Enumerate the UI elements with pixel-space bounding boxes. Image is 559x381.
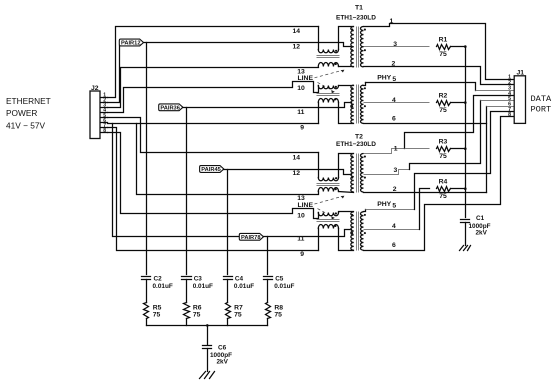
choke core xyxy=(317,219,340,221)
svg-text:PAIR78: PAIR78 xyxy=(241,235,261,241)
choke core xyxy=(317,183,340,185)
svg-text:75: 75 xyxy=(439,107,447,114)
choke winding top (line side) xyxy=(318,213,338,216)
svg-text:J2: J2 xyxy=(91,85,99,92)
svg-text:LINE: LINE xyxy=(298,202,314,209)
svg-text:9: 9 xyxy=(300,125,304,132)
pin 5 row T1 to J1 pin3 xyxy=(364,83,366,86)
secondary winding xyxy=(360,85,363,123)
wire PAIR12 drop to C2 xyxy=(146,43,148,275)
wire PAIR45 drop to C4 xyxy=(227,170,229,275)
capacitor C3 xyxy=(182,276,192,278)
net flag PAIR36 xyxy=(159,104,183,111)
svg-text:75: 75 xyxy=(439,153,447,160)
wire J2 pin1 to T1 pin14 row xyxy=(108,27,319,98)
svg-text:PHY: PHY xyxy=(377,75,391,82)
wire choke bottom right down to primary bottom tap xyxy=(339,229,354,251)
J2 pin 2 xyxy=(101,102,108,104)
svg-text:8: 8 xyxy=(508,112,511,118)
wire choke bottom right down to primary bottom tap xyxy=(339,103,354,124)
svg-text:R1: R1 xyxy=(439,36,448,43)
choke core xyxy=(317,55,340,57)
svg-text:11: 11 xyxy=(297,109,304,116)
svg-text:T2: T2 xyxy=(355,133,363,140)
wire PAIR36 row to T1 lower primary mid tap xyxy=(183,103,352,108)
wire J2 pin5 to T2 pin14 row xyxy=(108,118,319,153)
svg-text:2: 2 xyxy=(393,186,397,193)
termination bus vertical xyxy=(465,47,467,218)
J2 pin 5 xyxy=(101,117,108,119)
transformer core xyxy=(356,27,358,68)
svg-text:C4: C4 xyxy=(235,275,244,282)
svg-text:12: 12 xyxy=(293,170,301,177)
wire J2 pin3 to T1 pin13 row xyxy=(108,68,319,108)
svg-text:PAIR36: PAIR36 xyxy=(160,106,180,112)
svg-text:1: 1 xyxy=(390,18,394,25)
resistor R1 xyxy=(364,46,430,48)
svg-text:75: 75 xyxy=(439,193,447,200)
svg-text:14: 14 xyxy=(293,28,301,35)
choke winding bottom (line side) xyxy=(318,62,338,66)
svg-text:R2: R2 xyxy=(439,92,448,99)
svg-text:14: 14 xyxy=(293,155,301,162)
wire C2 to R5 xyxy=(146,280,148,303)
transformer core xyxy=(356,85,358,124)
secondary winding xyxy=(361,154,364,193)
wire R6 to bottom bus xyxy=(186,319,188,326)
svg-text:R4: R4 xyxy=(439,179,448,186)
svg-text:2kV: 2kV xyxy=(217,359,229,366)
resistor R8 xyxy=(266,303,271,319)
net flag PAIR78 xyxy=(239,233,263,240)
wire J2 pin8 to T2 pin10 row with jog xyxy=(108,133,319,219)
svg-text:DATA: DATA xyxy=(531,94,552,104)
wire branch to PAIR78 row xyxy=(113,124,240,237)
capacitor C4 xyxy=(224,276,233,278)
wire R7 to bottom bus xyxy=(227,319,229,326)
primary winding xyxy=(351,212,354,250)
wire pin14 drop to choke xyxy=(318,27,320,50)
svg-text:0.01uF: 0.01uF xyxy=(234,283,254,290)
resistor R6 xyxy=(184,303,190,319)
wire choke top right to primary top tap xyxy=(339,27,354,50)
secondary winding xyxy=(361,212,364,250)
ground below C6 xyxy=(200,372,206,379)
svg-text:8: 8 xyxy=(103,128,106,134)
svg-text:R3: R3 xyxy=(439,139,448,146)
transformer core xyxy=(356,212,358,251)
svg-text:C5: C5 xyxy=(275,275,284,282)
svg-text:41V − 57V: 41V − 57V xyxy=(6,121,45,131)
primary winding xyxy=(351,85,354,123)
choke winding top (line side) xyxy=(318,50,338,53)
bottom bus xyxy=(147,325,268,327)
wire C5 to R8 xyxy=(267,280,269,303)
pin 4 row T2 to R4 xyxy=(364,229,420,231)
pin 2 row T1 to J1 pin2 xyxy=(364,67,515,85)
svg-text:ETHERNET: ETHERNET xyxy=(6,96,51,106)
svg-text:PORT: PORT xyxy=(531,105,552,115)
wire PAIR78 drop to C5 xyxy=(267,237,269,275)
svg-text:0.01uF: 0.01uF xyxy=(274,283,294,290)
svg-text:11: 11 xyxy=(297,236,304,243)
svg-text:R6: R6 xyxy=(193,304,202,311)
svg-text:2kV: 2kV xyxy=(476,229,488,236)
ground below C1 xyxy=(460,246,464,251)
svg-text:6: 6 xyxy=(392,116,396,123)
svg-text:J1: J1 xyxy=(517,69,525,76)
wire R5 to bottom bus xyxy=(146,319,148,326)
svg-text:0.01uF: 0.01uF xyxy=(153,283,173,290)
pin 1 row T1 xyxy=(364,24,515,80)
svg-text:6: 6 xyxy=(392,242,396,249)
svg-text:75: 75 xyxy=(274,312,282,319)
wire J2 pin7 to T2 pin9 row xyxy=(108,128,319,251)
connector J2 xyxy=(90,91,100,139)
J2 pin 7 xyxy=(101,127,108,129)
svg-text:ETH1−230LD: ETH1−230LD xyxy=(336,14,376,21)
junction to C6 xyxy=(206,324,209,327)
wire J2 pin4 to T1 pin10 row with jog xyxy=(108,82,319,113)
secondary winding xyxy=(361,27,364,67)
svg-text:PAIR45: PAIR45 xyxy=(201,167,221,173)
svg-text:R5: R5 xyxy=(153,304,162,311)
pin 6 row T1 to J1 pin6 feeder xyxy=(364,123,487,125)
choke winding bottom (line side) xyxy=(318,98,338,102)
svg-text:10: 10 xyxy=(297,85,305,92)
J2 pin 6 xyxy=(101,122,108,124)
J2 pin 1 xyxy=(101,97,108,99)
J2 pin 8 xyxy=(101,132,108,134)
pin 3 row T2 to J1 pin5 xyxy=(364,170,410,175)
svg-text:0.01uF: 0.01uF xyxy=(193,283,213,290)
primary winding xyxy=(351,27,354,67)
svg-text:3: 3 xyxy=(394,167,398,174)
svg-text:2: 2 xyxy=(392,61,396,68)
J2 pin 3 xyxy=(101,107,108,109)
wire PAIR12 row to T1 primary mid tap xyxy=(144,43,352,47)
svg-text:C6: C6 xyxy=(218,345,227,352)
wire choke bottom right to primary bottom tap xyxy=(339,66,354,68)
svg-text:1: 1 xyxy=(394,146,398,153)
wire pin9 row up to choke bottom left xyxy=(318,229,320,251)
resistor R4 xyxy=(437,187,451,192)
resistor R7 xyxy=(226,303,231,319)
wire PAIR45 row to T2 primary mid tap xyxy=(224,170,352,175)
svg-text:ETH1−230LD: ETH1−230LD xyxy=(336,141,376,148)
resistor R3 xyxy=(437,147,451,152)
svg-text:5: 5 xyxy=(392,203,396,210)
svg-text:75: 75 xyxy=(234,312,242,319)
svg-text:POWER: POWER xyxy=(6,108,37,118)
choke core xyxy=(317,93,340,95)
choke winding bottom (line side) xyxy=(318,187,338,191)
pin 6 row T2 to J1 pin8 xyxy=(364,117,515,251)
svg-text:R7: R7 xyxy=(234,304,243,311)
choke winding bottom (line side) xyxy=(318,224,338,228)
primary winding xyxy=(351,154,354,193)
wire choke top right to primary top tap xyxy=(339,212,354,213)
svg-text:9: 9 xyxy=(300,251,304,258)
wire pin9 row up to choke bottom left xyxy=(318,103,320,124)
pin 2 row T2 to J1 pin6 xyxy=(364,192,487,194)
resistor R2 xyxy=(364,102,430,104)
wire PAIR78 row to T2 lower primary mid tap xyxy=(264,230,352,237)
net flag PAIR12 xyxy=(119,39,143,46)
wire choke top right to primary top tap xyxy=(339,154,354,178)
net flag PAIR45 xyxy=(200,166,224,173)
capacitor C6 xyxy=(203,345,212,347)
wire J2 pin6 to T1 pin9 row xyxy=(108,123,319,125)
choke winding top (line side) xyxy=(318,86,338,89)
svg-text:75: 75 xyxy=(193,312,201,319)
LINE leader arrows T1 xyxy=(315,71,342,78)
svg-text:12: 12 xyxy=(293,44,301,51)
pin 5 row T2 to J1 pin7 xyxy=(364,210,366,212)
LINE leader arrows T2 xyxy=(315,197,342,204)
wire C6 to ground xyxy=(207,349,209,372)
wire PAIR36 drop to C3 xyxy=(186,108,188,275)
choke winding top (line side) xyxy=(318,178,338,181)
wire branch to T2 pin13 row xyxy=(137,124,319,195)
svg-text:75: 75 xyxy=(153,312,161,319)
capacitor C2 xyxy=(142,276,151,278)
wire J2 pin2 riser to PAIR12 flag xyxy=(108,46,120,103)
svg-text:4: 4 xyxy=(392,223,396,230)
svg-text:PHY: PHY xyxy=(377,201,391,208)
wire C1 to ground xyxy=(465,223,467,246)
svg-text:C2: C2 xyxy=(154,275,163,282)
connector J1 xyxy=(514,76,525,124)
svg-text:10: 10 xyxy=(297,213,305,220)
wire C3 to R6 xyxy=(186,280,188,303)
wire choke bottom right to primary bottom tap xyxy=(339,192,354,193)
J2 pin 4 xyxy=(101,112,108,114)
svg-text:R8: R8 xyxy=(274,304,283,311)
wire choke top right to primary top tap xyxy=(339,85,354,87)
svg-text:T1: T1 xyxy=(355,5,363,12)
svg-text:C1: C1 xyxy=(476,215,485,222)
wire R8 to bottom bus xyxy=(267,319,269,326)
svg-text:75: 75 xyxy=(439,51,447,58)
svg-text:PAIR12: PAIR12 xyxy=(121,41,141,47)
capacitor C1 xyxy=(461,219,470,221)
transformer core xyxy=(356,154,358,193)
resistor R5 xyxy=(144,303,149,319)
capacitor C5 xyxy=(264,276,273,278)
svg-text:C3: C3 xyxy=(194,275,203,282)
wire pin14 drop to choke T2 xyxy=(318,153,320,178)
pin 1 row T2 to R3 and J1 pin4 xyxy=(364,149,405,154)
wire C4 to R7 xyxy=(227,280,229,303)
svg-text:LINE: LINE xyxy=(298,75,314,82)
